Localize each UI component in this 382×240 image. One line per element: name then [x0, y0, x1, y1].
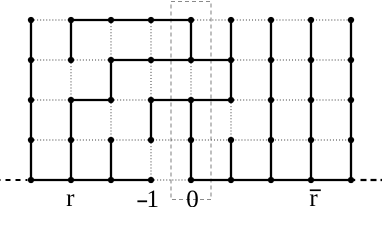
- node dot c8 r4: [308, 137, 314, 143]
- dotted wire column 3 from r3 to r4: [110, 100, 112, 140]
- node dot c4 r1: [148, 17, 154, 23]
- node dot c4 r3: [148, 97, 154, 103]
- node dot c7 r4: [268, 137, 274, 143]
- solid wire column 6 from r4 to r5: [230, 140, 232, 180]
- node dot c1 r1: [28, 17, 34, 23]
- solid wire column 5 from r1 to r2: [190, 20, 192, 60]
- node dot c7 r5: [268, 177, 274, 183]
- svg-text:1: 1: [146, 186, 159, 207]
- dotted wire row 1 from c5 to c9: [191, 19, 351, 21]
- dashed boundary line right of c9 on bottom row: [361, 179, 382, 181]
- node dot c4 r4: [148, 137, 154, 143]
- node dot c5 r5: [188, 177, 194, 183]
- node dot c3 r1: [108, 17, 114, 23]
- node dot c9 r5: [348, 177, 354, 183]
- solid wire row 1 from c2 to c5: [71, 19, 191, 21]
- node dot c9 r1: [348, 17, 354, 23]
- dotted wire column 2 from r2 to r3: [70, 60, 72, 100]
- node dot c5 r4: [188, 137, 194, 143]
- node dot c2 r4: [68, 137, 74, 143]
- solid wire row 3 from c4 to c6: [151, 99, 231, 101]
- node dot c8 r2: [308, 57, 314, 63]
- node dot c6 r4: [228, 137, 234, 143]
- dotted wire row 3 from c1 to c2: [31, 99, 71, 101]
- node dot c8 r3: [308, 97, 314, 103]
- node dot c5 r1: [188, 17, 194, 23]
- node dot c7 r1: [268, 17, 274, 23]
- dotted wire row 4 from c1 to c9: [31, 139, 351, 141]
- node dot c9 r4: [348, 137, 354, 143]
- node dot c3 r3: [108, 97, 114, 103]
- svg-text:0: 0: [186, 186, 199, 207]
- node dot c2 r3: [68, 97, 74, 103]
- dotted wire row 3 from c3 to c4: [111, 99, 151, 101]
- solid wire column 7 from r1 to r5: [270, 20, 272, 180]
- solid wire row 5 from c1 to c4: [28, 179, 152, 181]
- node dot c5 r3: [188, 97, 194, 103]
- solid wire column 3 from r4 to r5: [110, 140, 112, 180]
- label r-bar under column 8: overline: [310, 189, 321, 191]
- svg-text:r: r: [309, 185, 318, 207]
- node dot c7 r2: [268, 57, 274, 63]
- solid wire row 2 from c3 to c6: [111, 59, 231, 61]
- dotted wire row 5 from c4 to c5: [151, 179, 191, 181]
- dotted wire column 5 from r2 to r3: [190, 60, 192, 100]
- dotted wire column 6 from r3 to r4: [230, 100, 232, 140]
- node dot c1 r5: [28, 177, 34, 183]
- solid wire row 5 from c5 to c9: [191, 179, 355, 181]
- node dot c5 r2: [188, 57, 194, 63]
- solid wire column 2 from r3 to r5: [70, 100, 72, 180]
- node dot c1 r4: [28, 137, 34, 143]
- node dot c2 r1: [68, 17, 74, 23]
- solid wire column 4 from r3 to r4: [150, 100, 152, 140]
- node dot c3 r5: [108, 177, 114, 183]
- node dot c4 r2: [148, 57, 154, 63]
- dashed highlight box around node column 0: [171, 2, 211, 200]
- dotted wire row 2 from c6 to c9: [231, 59, 351, 61]
- node dot c8 r5: [308, 177, 314, 183]
- node dot c4 r5: [148, 177, 154, 183]
- solid wire row 3 from c2 to c3: [71, 99, 111, 101]
- solid wire column 2 from r1 to r2: [70, 20, 72, 60]
- node dot c9 r3: [348, 97, 354, 103]
- node dot c3 r4: [108, 137, 114, 143]
- solid wire column 8 from r1 to r5: [310, 20, 312, 180]
- node dot c6 r3: [228, 97, 234, 103]
- node dot c1 r3: [28, 97, 34, 103]
- node dot c7 r3: [268, 97, 274, 103]
- node dot c1 r2: [28, 57, 34, 63]
- dashed boundary line left of c1 on bottom row: [0, 179, 27, 181]
- node dot c8 r1: [308, 17, 314, 23]
- node dot c6 r1: [228, 17, 234, 23]
- dotted wire row 3 from c6 to c9: [231, 99, 351, 101]
- dotted wire row 2 from c1 to c3: [31, 59, 111, 61]
- solid wire column 3 from r2 to r3: [110, 60, 112, 100]
- dotted wire column 3 from r1 to r2: [110, 20, 112, 60]
- solid wire column 6 from r1 to r3: [230, 20, 232, 100]
- dotted wire column 4 from r4 to r5: [150, 140, 152, 180]
- dotted wire row 1 from c1 to c2: [31, 19, 71, 21]
- label minus sign of -1 under column 4: [137, 200, 147, 202]
- node dot c9 r2: [348, 57, 354, 63]
- solid wire column 9 from r1 to r5: [350, 20, 352, 180]
- node dot c3 r2: [108, 57, 114, 63]
- node dot c6 r2: [228, 57, 234, 63]
- solid wire column 1 from r1 to r5: [30, 20, 32, 180]
- node dot c2 r2: [68, 57, 74, 63]
- node dot c6 r5: [228, 177, 234, 183]
- solid wire column 5 from r3 to r5: [190, 100, 192, 180]
- dotted wire column 4 from r1 to r3: [150, 20, 152, 100]
- svg-text:r: r: [66, 185, 75, 207]
- node dot c2 r5: [68, 177, 74, 183]
